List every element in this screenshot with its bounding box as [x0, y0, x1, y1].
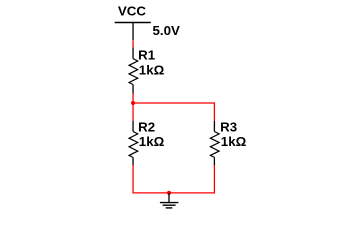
ground symbol [160, 193, 179, 208]
svg-text:5.0V: 5.0V [153, 23, 180, 38]
svg-text:R1: R1 [138, 47, 156, 62]
svg-text:R2: R2 [138, 119, 155, 134]
svg-text:VCC: VCC [118, 4, 146, 19]
svg-text:1kΩ: 1kΩ [221, 134, 247, 149]
wire: R3 to bottom rail [213, 166, 215, 193]
power symbol VCC (rail bar and pin) [115, 23, 151, 41]
svg-text:R3: R3 [220, 119, 237, 134]
wire: VCC pin to R1 [132, 40, 134, 47]
resistor R3 [210, 121, 219, 166]
svg-text:1kΩ: 1kΩ [139, 134, 165, 149]
wire: node A to R2 [132, 103, 134, 121]
wire: R1 to node A [132, 94, 134, 104]
wire: node A to top of R3 (top rail) [133, 103, 214, 121]
junction node GND [167, 191, 171, 195]
wire: R2 to bottom rail [132, 166, 134, 193]
svg-text:1kΩ: 1kΩ [139, 62, 165, 77]
junction node A [131, 101, 135, 105]
resistor R1 [129, 47, 138, 93]
wire: bottom ground rail [133, 192, 214, 194]
resistor R2 [129, 121, 138, 166]
